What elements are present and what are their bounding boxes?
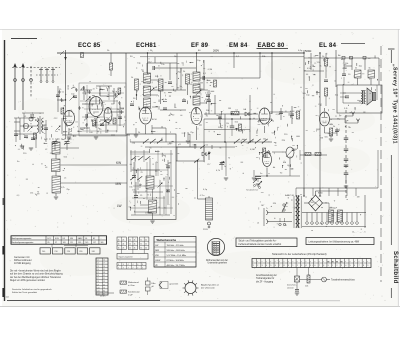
- svg-text:Schaltbild: Schaltbild: [392, 251, 398, 284]
- svg-text:Gleichspannungswerte: Gleichspannungswerte: [11, 237, 32, 240]
- svg-text:die ZF - Ausgang: die ZF - Ausgang: [256, 280, 274, 283]
- svg-text:15k: 15k: [317, 62, 320, 64]
- svg-text:0,5M: 0,5M: [250, 149, 255, 151]
- svg-text:o: o: [363, 261, 364, 263]
- svg-text:o: o: [266, 261, 267, 263]
- svg-text:o: o: [257, 261, 258, 263]
- svg-text:7: 7: [128, 267, 129, 269]
- svg-text:0,5M: 0,5M: [342, 68, 347, 70]
- svg-text:EM 84: EM 84: [229, 43, 248, 49]
- svg-text:109: 109: [63, 242, 66, 244]
- svg-text:220: 220: [67, 251, 70, 253]
- svg-text:2k: 2k: [145, 244, 147, 246]
- svg-text:o: o: [253, 261, 254, 263]
- svg-text:C1: C1: [97, 260, 99, 262]
- svg-text:Fehler bei Tests gemeldet: Fehler bei Tests gemeldet: [12, 291, 37, 294]
- svg-text:Stück- und Teilungslisten gezi: Stück- und Teilungslisten gezielte An-: [239, 240, 277, 243]
- svg-text:4: 4: [128, 264, 129, 266]
- svg-text:5,97 MHz - 15,4 MHz: 5,97 MHz - 15,4 MHz: [167, 255, 187, 257]
- svg-text:Spannungsteiler: Spannungsteiler: [119, 255, 134, 258]
- svg-text:0,5M: 0,5M: [276, 114, 281, 116]
- svg-text:C10: C10: [97, 287, 100, 289]
- svg-text:2k: 2k: [145, 239, 147, 241]
- svg-text:4: 4: [142, 264, 143, 266]
- svg-text:LW: LW: [117, 204, 122, 208]
- svg-text:88: 88: [332, 262, 334, 264]
- svg-text:2k: 2k: [122, 239, 124, 241]
- svg-text:52: 52: [103, 278, 105, 280]
- svg-text:1k: 1k: [118, 248, 120, 250]
- svg-text:C4: C4: [97, 269, 99, 271]
- svg-text:0,5M: 0,5M: [198, 82, 203, 84]
- svg-text:2k: 2k: [134, 244, 136, 246]
- svg-text:0,1µ: 0,1µ: [298, 50, 303, 52]
- svg-text:20.4 L: 20.4 L: [100, 296, 107, 298]
- svg-text:o: o: [323, 261, 324, 263]
- svg-text:o: o: [358, 261, 359, 263]
- svg-text:80: 80: [103, 290, 105, 292]
- svg-text:C7: C7: [97, 278, 99, 280]
- svg-text:Tonabnehmer: Tonabnehmer: [246, 190, 259, 192]
- svg-text:Zwischen-: Zwischen-: [287, 285, 297, 287]
- svg-text:Widerstand: Widerstand: [128, 281, 139, 284]
- svg-text:2k: 2k: [145, 248, 147, 250]
- svg-text:145: 145: [85, 242, 88, 244]
- svg-text:73: 73: [103, 287, 105, 289]
- svg-text:4,7k: 4,7k: [61, 187, 65, 189]
- svg-text:240Ω: 240Ω: [67, 85, 69, 90]
- svg-text:15k: 15k: [226, 123, 229, 125]
- svg-text:0,5M: 0,5M: [307, 68, 312, 70]
- svg-text:o: o: [261, 261, 262, 263]
- svg-text:o: o: [345, 261, 346, 263]
- svg-text:50k: 50k: [147, 83, 150, 85]
- svg-text:1k: 1k: [140, 244, 142, 246]
- svg-text:1M: 1M: [228, 108, 231, 110]
- svg-text:45: 45: [103, 275, 105, 277]
- svg-text:50k: 50k: [324, 136, 327, 138]
- svg-text:50k: 50k: [64, 157, 67, 159]
- svg-text:stecker: stecker: [287, 286, 294, 289]
- svg-text:1k: 1k: [129, 244, 131, 246]
- svg-text:geschirmt: geschirmt: [170, 283, 179, 286]
- svg-text:Abgleichpunkte an: Abgleichpunkte an: [201, 284, 220, 287]
- svg-text:5n: 5n: [272, 133, 274, 135]
- svg-text:2k: 2k: [134, 239, 136, 241]
- svg-text:7: 7: [137, 267, 138, 269]
- svg-text:0,5M: 0,5M: [208, 69, 213, 71]
- svg-text:240: 240: [92, 251, 95, 253]
- svg-text:MW: MW: [116, 182, 122, 186]
- svg-text:4: 4: [123, 264, 124, 266]
- svg-text:210: 210: [54, 251, 57, 253]
- svg-text:o: o: [319, 261, 320, 263]
- svg-text:Tr: Tr: [82, 108, 84, 110]
- svg-text:4: 4: [118, 264, 119, 266]
- svg-text:50k: 50k: [311, 202, 314, 204]
- svg-text:88: 88: [341, 262, 343, 264]
- svg-text:Unterseite gesehen: Unterseite gesehen: [208, 262, 228, 265]
- svg-text:10k: 10k: [305, 286, 308, 288]
- svg-text:ECH: ECH: [152, 119, 157, 121]
- svg-text:Die mit • bezeichneten Werte s: Die mit • bezeichneten Werte sind mit de…: [10, 270, 61, 273]
- svg-text:97: 97: [55, 242, 57, 244]
- svg-text:C5: C5: [97, 272, 99, 274]
- svg-text:2k: 2k: [122, 248, 124, 250]
- svg-text:14- .. ·· . -- · . 6: 14- .. ·· . -- · . 6: [352, 232, 366, 234]
- svg-text:o: o: [284, 261, 285, 263]
- svg-text:5k: 5k: [369, 68, 371, 70]
- svg-text:38: 38: [103, 272, 105, 274]
- svg-text:o: o: [270, 261, 271, 263]
- svg-text:1k: 1k: [161, 127, 163, 129]
- svg-text:o: o: [292, 261, 293, 263]
- svg-text:Regel von 20% gemessen worden: Regel von 20% gemessen worden: [10, 279, 46, 282]
- svg-text:88: 88: [336, 262, 338, 264]
- svg-text:230: 230: [79, 251, 82, 253]
- svg-text:1M: 1M: [357, 197, 360, 199]
- svg-text:260V: 260V: [213, 49, 219, 53]
- svg-text:1M: 1M: [320, 138, 323, 140]
- svg-text:4: 4: [137, 264, 138, 266]
- svg-text:4: 4: [133, 264, 134, 266]
- svg-text:Teilansicht zu der Leiterbahne: Teilansicht zu der Leiterbahnen (Prinzip…: [272, 253, 327, 256]
- svg-text:o: o: [297, 261, 298, 263]
- svg-text:1k: 1k: [118, 239, 120, 241]
- svg-text:„Servey 10“ Type 1441(0/3)1: „Servey 10“ Type 1441(0/3)1: [392, 64, 398, 144]
- svg-text:KW: KW: [116, 161, 121, 165]
- svg-text:5n: 5n: [62, 91, 64, 93]
- svg-text:EF 89: EF 89: [191, 43, 209, 49]
- svg-text:1k: 1k: [325, 202, 327, 204]
- svg-text:15k: 15k: [132, 190, 135, 192]
- svg-text:o: o: [301, 261, 302, 263]
- svg-text:Tr: Tr: [96, 88, 98, 90]
- svg-text:85: 85: [48, 242, 50, 244]
- svg-text:Wellenbereiche: Wellenbereiche: [157, 238, 177, 242]
- svg-text:1k: 1k: [129, 248, 131, 250]
- svg-text:Leistungsaufnahme: bei Vollaus: Leistungsaufnahme: bei Vollaussteuerung …: [309, 240, 361, 243]
- svg-text:88: 88: [327, 262, 329, 264]
- svg-text:~: ~: [100, 238, 101, 240]
- svg-text:17: 17: [103, 263, 105, 265]
- svg-text:200: 200: [42, 251, 45, 253]
- svg-text:C6: C6: [97, 275, 99, 277]
- svg-text:der bei den Meßbedingungen übl: der bei den Meßbedingungen üblichen Tole…: [10, 276, 62, 279]
- svg-text:in pF: in pF: [128, 294, 133, 296]
- svg-text:EL 84: EL 84: [319, 43, 337, 49]
- svg-text:der Unterseite: der Unterseite: [201, 287, 216, 290]
- svg-text:10: 10: [103, 260, 105, 262]
- svg-text:Tonbandgeräte für: Tonbandgeräte für: [256, 277, 275, 280]
- svg-text:10 MΩ Eingang: 10 MΩ Eingang: [14, 262, 31, 265]
- svg-text:500Ω: 500Ω: [305, 49, 311, 53]
- svg-text:C3: C3: [97, 266, 99, 268]
- svg-text:Tr: Tr: [164, 93, 166, 95]
- svg-text:1k: 1k: [319, 105, 321, 107]
- svg-text:EM: EM: [283, 162, 286, 164]
- svg-text:o: o: [279, 261, 280, 263]
- svg-text:Tr: Tr: [266, 208, 268, 210]
- svg-text:C8: C8: [97, 281, 99, 283]
- svg-text:4,7k: 4,7k: [106, 87, 110, 89]
- svg-text:66: 66: [103, 284, 105, 286]
- svg-text:87 MHz - 100 MHz: 87 MHz - 100 MHz: [167, 260, 184, 262]
- svg-text:o: o: [350, 261, 351, 263]
- svg-text:o: o: [354, 261, 355, 263]
- svg-text:2n: 2n: [158, 109, 160, 111]
- svg-text:o: o: [367, 261, 368, 263]
- svg-text:2M: 2M: [139, 185, 142, 187]
- svg-text:31: 31: [103, 269, 105, 271]
- svg-text:1k: 1k: [319, 65, 321, 67]
- svg-text:1k: 1k: [140, 248, 142, 250]
- svg-text:2M: 2M: [177, 87, 180, 89]
- svg-text:15k: 15k: [129, 187, 132, 189]
- svg-text:2n: 2n: [98, 128, 100, 130]
- svg-text:ECH81: ECH81: [136, 43, 157, 49]
- svg-text:7: 7: [142, 267, 143, 269]
- svg-text:8n: 8n: [17, 161, 19, 163]
- svg-text:7: 7: [123, 267, 124, 269]
- svg-text:ECC 85: ECC 85: [78, 43, 101, 49]
- svg-text:C17: C17: [207, 164, 210, 166]
- svg-text:2k: 2k: [134, 248, 136, 250]
- svg-text:auf der dem Chassis zu und unt: auf der dem Chassis zu und unter Berücks…: [10, 273, 63, 276]
- svg-text:7: 7: [133, 267, 134, 269]
- svg-text:1k: 1k: [206, 144, 208, 146]
- svg-text:5k: 5k: [355, 68, 357, 70]
- svg-text:o: o: [275, 261, 276, 263]
- svg-text:15k: 15k: [235, 122, 238, 124]
- svg-text:C11: C11: [97, 290, 100, 292]
- svg-text:15k: 15k: [30, 192, 33, 194]
- svg-text:Röhrensockel von der: Röhrensockel von der: [206, 259, 228, 262]
- svg-text:o: o: [310, 261, 311, 263]
- svg-text:5 Ω: 5 Ω: [344, 108, 348, 110]
- svg-text:1k: 1k: [140, 239, 142, 241]
- svg-text:o: o: [306, 261, 307, 263]
- svg-text:1k: 1k: [129, 239, 131, 241]
- svg-text:157: 157: [93, 242, 96, 244]
- svg-text:1M: 1M: [261, 205, 264, 207]
- svg-text:o: o: [288, 261, 289, 263]
- svg-text:1k: 1k: [118, 244, 120, 246]
- svg-text:8n: 8n: [206, 115, 208, 117]
- svg-text:EABC 80: EABC 80: [258, 43, 286, 49]
- svg-text:Kondensator: Kondensator: [128, 291, 140, 294]
- svg-text:5n: 5n: [180, 86, 182, 88]
- svg-text:p11: p11: [178, 144, 181, 146]
- svg-text:24: 24: [103, 266, 105, 268]
- svg-text:8n: 8n: [332, 215, 334, 217]
- svg-text:121: 121: [70, 242, 73, 244]
- svg-text:Tr: Tr: [156, 162, 158, 164]
- svg-text:o: o: [314, 261, 315, 263]
- svg-text:Anschlussleitung der: Anschlussleitung der: [256, 274, 277, 277]
- svg-text:460 kHz / 10,7 MHz: 460 kHz / 10,7 MHz: [167, 265, 185, 267]
- svg-text:15k: 15k: [161, 64, 164, 66]
- svg-text:50k: 50k: [330, 124, 333, 126]
- svg-text:Tr: Tr: [183, 99, 185, 101]
- svg-text:220V: 220V: [203, 229, 208, 231]
- svg-text:50+50µF: 50+50µF: [329, 208, 338, 210]
- svg-text:EL: EL: [85, 238, 87, 240]
- svg-text:Tonabnehmeranschluss: Tonabnehmeranschluss: [331, 279, 356, 282]
- svg-text:EABC: EABC: [78, 237, 84, 240]
- svg-text:150 kHz - 270 kHz: 150 kHz - 270 kHz: [167, 245, 184, 247]
- svg-text:2M: 2M: [61, 100, 64, 102]
- svg-text:EABC 80: EABC 80: [285, 194, 295, 197]
- svg-text:C2: C2: [97, 263, 99, 265]
- svg-text:169: 169: [100, 242, 103, 244]
- svg-text:C9: C9: [97, 284, 99, 286]
- svg-text:Tr: Tr: [334, 200, 336, 202]
- svg-text:2n: 2n: [93, 88, 95, 90]
- svg-text:Wechselspannungswerte: Wechselspannungswerte: [11, 241, 34, 244]
- svg-text:in Ohm: in Ohm: [128, 285, 135, 287]
- svg-text:5n: 5n: [164, 207, 166, 209]
- svg-text:133: 133: [78, 242, 81, 244]
- svg-text:7: 7: [118, 267, 119, 269]
- svg-text:15k: 15k: [329, 135, 332, 137]
- svg-text:Fehlersuchtabelle wurden berei: Fehlersuchtabelle wurden bereits erwähnt: [239, 243, 282, 246]
- svg-text:Deutsche Jahrbücher sind in ge: Deutsche Jahrbücher sind in gegendruck: [12, 288, 53, 291]
- svg-text:59: 59: [103, 281, 105, 283]
